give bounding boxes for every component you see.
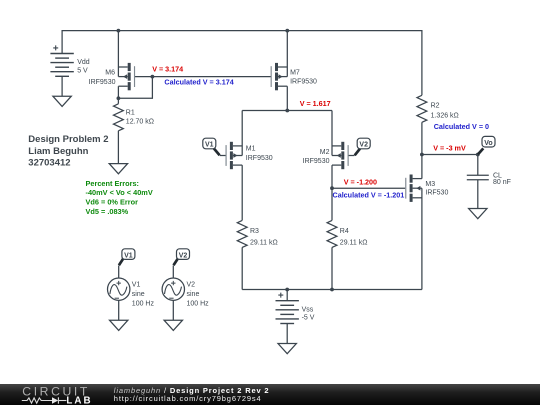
svg-text:Calculated V = 0: Calculated V = 0 (434, 122, 489, 131)
svg-text:V = -3 mV: V = -3 mV (433, 143, 466, 152)
svg-text:V2: V2 (187, 282, 196, 289)
svg-text:100 Hz: 100 Hz (132, 301, 155, 308)
svg-text:1.326 kΩ: 1.326 kΩ (431, 113, 459, 120)
svg-text:Vo: Vo (484, 140, 492, 147)
svg-text:V2: V2 (179, 252, 188, 259)
svg-text:-5 V: -5 V (302, 314, 315, 321)
svg-text:Percent Errors:: Percent Errors: (86, 179, 139, 188)
svg-text:29.11 kΩ: 29.11 kΩ (340, 239, 368, 246)
svg-text:V = -1.200: V = -1.200 (344, 177, 377, 186)
svg-text:IRF9530: IRF9530 (303, 158, 330, 165)
svg-text:29.11 kΩ: 29.11 kΩ (250, 239, 278, 246)
svg-text:V = 1.617: V = 1.617 (300, 99, 331, 108)
svg-text:M6: M6 (105, 70, 115, 77)
svg-text:V2: V2 (359, 142, 368, 149)
svg-text:-40mV < Vo < 40mV: -40mV < Vo < 40mV (86, 188, 153, 197)
svg-text:M1: M1 (246, 146, 256, 153)
svg-text:Vd5 = .083%: Vd5 = .083% (86, 207, 129, 216)
svg-text:IRF530: IRF530 (425, 189, 448, 196)
svg-text:12.70 kΩ: 12.70 kΩ (126, 119, 154, 126)
svg-text:IRF9530: IRF9530 (246, 155, 273, 162)
svg-text:Calculated V = 3.174: Calculated V = 3.174 (164, 78, 233, 87)
svg-text:V1: V1 (124, 252, 133, 259)
svg-text:R2: R2 (431, 103, 440, 110)
svg-text:Vdd: Vdd (77, 59, 90, 66)
svg-text:Vd6 = 0% Error: Vd6 = 0% Error (86, 198, 139, 207)
svg-text:sine: sine (132, 291, 145, 298)
svg-text:V1: V1 (132, 282, 141, 289)
svg-text:Calculated V = -1.201: Calculated V = -1.201 (333, 190, 405, 199)
svg-text:V = 3.174: V = 3.174 (152, 65, 183, 74)
svg-text:sine: sine (187, 291, 200, 298)
svg-text:V1: V1 (205, 142, 214, 149)
svg-text:R4: R4 (340, 228, 349, 235)
svg-text:100 Hz: 100 Hz (187, 301, 210, 308)
svg-text:80 nF: 80 nF (493, 179, 511, 186)
svg-text:R1: R1 (126, 109, 135, 116)
svg-text:IRF9530: IRF9530 (290, 79, 317, 86)
svg-text:Liam Beguhn: Liam Beguhn (28, 146, 88, 157)
svg-text:IRF9530: IRF9530 (89, 79, 116, 86)
svg-text:M3: M3 (425, 181, 435, 188)
svg-text:M2: M2 (320, 149, 330, 156)
svg-text:5 V: 5 V (77, 68, 88, 75)
svg-text:M7: M7 (290, 69, 300, 76)
svg-text:32703412: 32703412 (28, 157, 70, 168)
svg-text:R3: R3 (250, 228, 259, 235)
svg-text:http://circuitlab.com/cry79bg6: http://circuitlab.com/cry79bg6729s4 (114, 394, 262, 403)
svg-text:Design Problem 2: Design Problem 2 (28, 134, 108, 145)
svg-text:Vss: Vss (302, 307, 314, 314)
svg-text:LAB: LAB (66, 395, 92, 405)
